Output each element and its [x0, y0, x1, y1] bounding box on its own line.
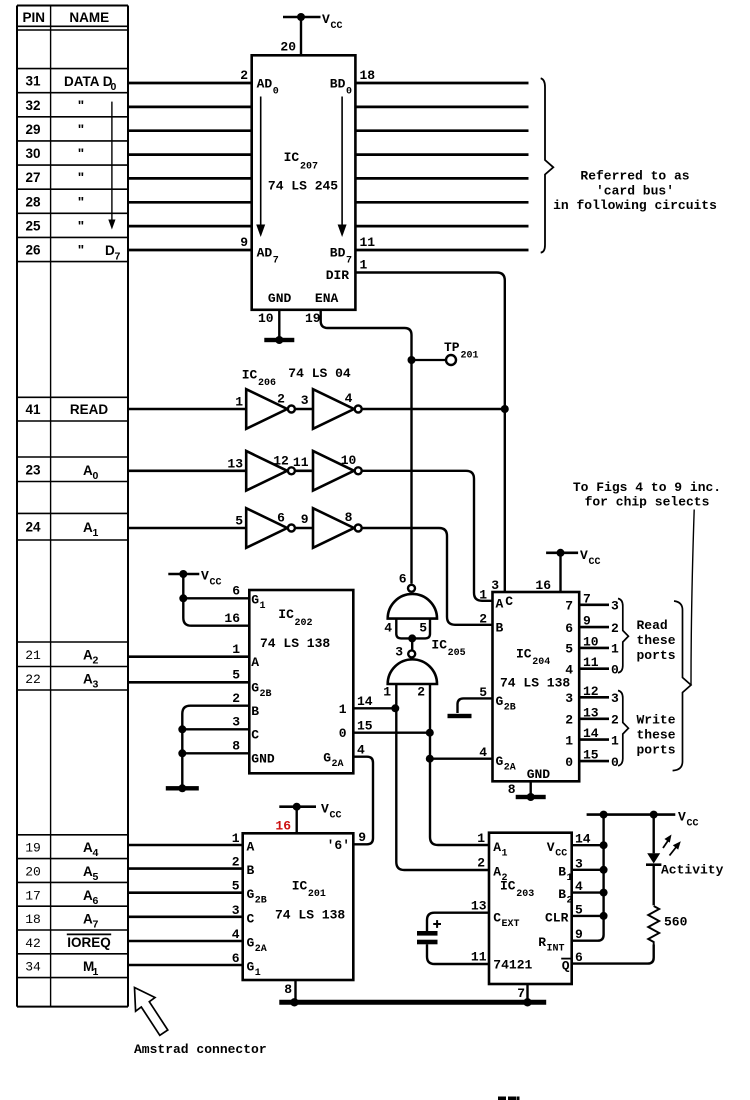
- IC U201 74LS138 body: [243, 833, 354, 980]
- svg-text:R: R: [538, 935, 546, 950]
- svg-text:13: 13: [471, 899, 487, 914]
- wire table to IC201 pin 3: [128, 915, 243, 918]
- pin row 22 A3: [17, 689, 128, 691]
- brace write ports: [618, 691, 628, 766]
- svg-text:10: 10: [341, 453, 357, 468]
- Amstrad connector arrow (outline): [135, 988, 168, 1036]
- wire card bus BD4 (IC207 to card bus): [355, 177, 528, 180]
- wire RD (inverted READ) to node RD: [362, 408, 504, 411]
- wire table to IC201 pin 4: [128, 940, 243, 943]
- svg-text:3: 3: [611, 691, 619, 706]
- svg-text:0: 0: [611, 755, 619, 770]
- junction dot: [179, 570, 187, 578]
- svg-text:74 LS 138: 74 LS 138: [275, 908, 345, 923]
- wire CEXT to capacitor: [427, 913, 489, 931]
- svg-text:these: these: [637, 728, 676, 743]
- svg-text:16: 16: [275, 819, 291, 834]
- pin row 21 A2: [17, 641, 128, 643]
- inverter IC206 A1 first stage (pin 5-6): [246, 508, 287, 548]
- svg-text:10: 10: [258, 311, 274, 326]
- svg-text:A: A: [83, 672, 93, 687]
- svg-text:74 LS 138: 74 LS 138: [260, 636, 330, 651]
- wire inverter stage1 to stage2: [296, 527, 313, 530]
- svg-text:Q: Q: [562, 959, 570, 974]
- svg-text:5: 5: [93, 871, 99, 883]
- NAND gate IC205b (pins 1,2 -> 3) dome: [388, 659, 437, 684]
- svg-text:15: 15: [583, 748, 599, 763]
- svg-text:A: A: [83, 888, 93, 903]
- svg-text:4: 4: [345, 391, 353, 406]
- svg-text:6: 6: [232, 951, 240, 966]
- svg-text:7: 7: [583, 591, 591, 606]
- svg-text:DATA D: DATA D: [64, 74, 113, 89]
- svg-text:560: 560: [664, 915, 688, 930]
- junction dot: [600, 912, 608, 920]
- ground symbol IC204: [516, 795, 546, 799]
- wire DIR to node RD: [355, 273, 504, 593]
- svg-text:74 LS 138: 74 LS 138: [500, 676, 570, 691]
- svg-text:G: G: [496, 694, 504, 709]
- IC U207 74LS245 body: [252, 55, 356, 309]
- wire table to IC201 pin 2: [128, 867, 243, 870]
- pointer line from chip selects note: [691, 510, 694, 686]
- IC204 output 5 (pin 10) wire: [579, 647, 609, 650]
- svg-text:TP: TP: [444, 340, 460, 355]
- junction dot: [600, 889, 608, 897]
- table row lines - address rows: [17, 834, 128, 836]
- wire A2 (table to IC202 pin A): [128, 655, 249, 658]
- card bus brace: [541, 78, 554, 252]
- svg-text:26: 26: [25, 243, 41, 258]
- svg-text:C: C: [493, 911, 501, 926]
- svg-text:30: 30: [25, 146, 40, 161]
- IC205a input legs bridged (pins 4,5): [396, 619, 430, 639]
- svg-text:CC: CC: [330, 811, 342, 822]
- svg-text:Referred to as: Referred to as: [580, 169, 689, 184]
- wire inverter stage1 to stage2: [296, 469, 313, 472]
- wire card bus BD0 (IC207 to card bus): [355, 82, 528, 85]
- svg-text:7: 7: [517, 986, 525, 1001]
- wire pin C to ground rail: [182, 728, 249, 730]
- wire G1 pin6: [183, 597, 249, 599]
- wire pin16 to Vcc: [296, 807, 298, 834]
- svg-text:11: 11: [583, 655, 599, 670]
- Vcc rail for IC204: [546, 551, 578, 554]
- svg-text:5: 5: [565, 642, 573, 657]
- IC U204 74LS138 body: [493, 592, 580, 781]
- node RD junction with READ line: [501, 405, 509, 413]
- svg-text:2: 2: [277, 392, 285, 407]
- wire capacitor to pin 11: [427, 944, 489, 964]
- svg-text:2: 2: [567, 896, 573, 907]
- junction dot: [600, 841, 608, 849]
- wire IC202 G2A to IC201 output 6 (pin 9): [353, 757, 373, 845]
- svg-text:5: 5: [235, 514, 243, 529]
- svg-text:27: 27: [25, 170, 40, 185]
- wire Qbar to resistor: [572, 945, 654, 964]
- svg-text:6: 6: [399, 572, 407, 587]
- svg-text:2: 2: [611, 621, 619, 636]
- svg-text:A: A: [493, 840, 501, 855]
- svg-text:A: A: [496, 597, 504, 612]
- svg-text:11: 11: [471, 950, 487, 965]
- wire IC205b pin1 to IC203 A2: [396, 684, 489, 870]
- pin row 41 READ: [17, 396, 128, 398]
- svg-text:": ": [78, 218, 84, 233]
- svg-text:3: 3: [395, 645, 403, 660]
- svg-text:1: 1: [477, 831, 485, 846]
- svg-text:IC: IC: [284, 150, 300, 165]
- svg-text:7: 7: [565, 599, 573, 614]
- svg-text:1: 1: [93, 966, 99, 978]
- junction dot G1: [179, 594, 187, 602]
- table row lines - data rows: [17, 68, 128, 70]
- svg-text:CC: CC: [331, 21, 343, 32]
- svg-text:A: A: [83, 840, 93, 855]
- pin row 23 A0: [17, 456, 128, 458]
- svg-text:READ: READ: [70, 402, 109, 417]
- IC204 output 4 (pin 11) wire: [579, 667, 609, 670]
- wire B2 to Vcc branch: [572, 891, 604, 893]
- svg-text:2B: 2B: [504, 703, 516, 714]
- svg-text:207: 207: [300, 162, 318, 173]
- wire data bus AD6 (table to IC207): [128, 225, 252, 228]
- svg-text:8: 8: [284, 982, 292, 997]
- wire table to IC201 pin 6: [128, 964, 243, 967]
- junction dot: [297, 13, 305, 21]
- svg-text:206: 206: [258, 378, 276, 389]
- svg-text:IC: IC: [292, 879, 308, 894]
- wire Vcc to G1 and pin16: [183, 574, 249, 626]
- svg-text:IOREQ: IOREQ: [67, 935, 111, 950]
- svg-text:A: A: [493, 865, 501, 880]
- IC204 output 0 (pin 15) wire: [579, 760, 609, 763]
- wire card bus BD6 (IC207 to card bus): [355, 225, 528, 228]
- svg-text:74121: 74121: [493, 958, 532, 973]
- svg-text:V: V: [547, 840, 555, 855]
- wire A1 (table to inverter): [128, 527, 246, 530]
- wire card bus BD2 (IC207 to card bus): [355, 129, 528, 132]
- wire data bus AD5 (table to IC207): [128, 201, 252, 204]
- wire G2B to ground: [458, 698, 493, 713]
- svg-text:V: V: [580, 548, 588, 563]
- svg-text:2: 2: [611, 713, 619, 728]
- svg-text:0: 0: [111, 81, 117, 93]
- junction dot (output 0 net to IC204 G2A): [426, 755, 434, 763]
- IC204 output 3 (pin 12) wire: [579, 696, 609, 699]
- wire Vcc pin14 to Vcc rail branch: [572, 844, 604, 846]
- svg-text:D: D: [105, 243, 115, 258]
- svg-text:2: 2: [417, 685, 425, 700]
- wire A1 buffered to IC204 pin B: [362, 528, 492, 625]
- svg-text:5: 5: [232, 879, 240, 894]
- svg-text:2: 2: [502, 873, 508, 884]
- svg-text:74 LS 245: 74 LS 245: [268, 179, 338, 194]
- svg-text:CC: CC: [589, 557, 601, 568]
- svg-text:9: 9: [358, 830, 366, 845]
- svg-text:2: 2: [232, 855, 240, 870]
- svg-text:NAME: NAME: [69, 10, 109, 25]
- svg-text:": ": [78, 194, 84, 209]
- svg-text:3: 3: [301, 393, 309, 408]
- resistor R 560 zigzag: [648, 906, 659, 945]
- svg-text:13: 13: [227, 456, 243, 471]
- svg-text:for chip selects: for chip selects: [585, 495, 710, 510]
- svg-text:17: 17: [25, 888, 41, 903]
- svg-text:25: 25: [25, 218, 41, 233]
- junction dot (IC203 branch): [600, 811, 608, 819]
- svg-text:A: A: [83, 912, 93, 927]
- svg-text:0: 0: [346, 87, 352, 98]
- svg-text:A: A: [83, 463, 93, 478]
- svg-text:To Figs 4 to 9 inc.: To Figs 4 to 9 inc.: [573, 480, 721, 495]
- wire data bus AD1 (table to IC207): [128, 106, 252, 109]
- svg-text:2B: 2B: [255, 896, 267, 907]
- wire inverter stage1 to stage2: [296, 408, 313, 411]
- svg-text:8: 8: [508, 782, 516, 797]
- svg-text:": ": [78, 122, 84, 137]
- svg-text:B: B: [247, 863, 255, 878]
- svg-text:19: 19: [25, 841, 41, 856]
- svg-text:G: G: [251, 593, 259, 608]
- svg-text:V: V: [321, 802, 329, 817]
- svg-text:IC: IC: [278, 607, 294, 622]
- svg-text:1: 1: [502, 849, 508, 860]
- svg-text:CC: CC: [687, 819, 699, 830]
- svg-text:0: 0: [273, 87, 279, 98]
- svg-text:0: 0: [565, 755, 573, 770]
- svg-text:4: 4: [232, 927, 240, 942]
- svg-text:3: 3: [491, 578, 499, 593]
- inverter IC206 READ second stage (pin 3-4): [313, 389, 354, 429]
- svg-text:1: 1: [260, 601, 266, 612]
- svg-text:ENA: ENA: [315, 291, 339, 306]
- svg-text:V: V: [322, 12, 330, 27]
- capacitor + polarity mark: [433, 923, 441, 925]
- svg-text:Read: Read: [637, 618, 668, 633]
- svg-text:GND: GND: [268, 291, 292, 306]
- svg-text:ports: ports: [637, 648, 676, 663]
- svg-text:1: 1: [567, 873, 573, 884]
- svg-text:31: 31: [25, 74, 41, 89]
- svg-text:DIR: DIR: [326, 268, 350, 283]
- wire pin20 to Vcc: [300, 17, 302, 55]
- wire RINT to Vcc branch: [572, 815, 604, 941]
- wire table to IC201 pin 1: [128, 844, 243, 847]
- wire IC202 output 0 to gate IC205b pin2 / IC204 G2A / IC203 A1: [353, 732, 430, 734]
- svg-text:32: 32: [25, 98, 40, 113]
- svg-text:1: 1: [232, 642, 240, 657]
- IC205b output bubble (pin 3): [408, 650, 415, 657]
- svg-text:9: 9: [240, 235, 248, 250]
- svg-text:2: 2: [565, 713, 573, 728]
- svg-text:0: 0: [611, 663, 619, 678]
- wire card bus BD3 (IC207 to card bus): [355, 153, 528, 156]
- svg-text:these: these: [637, 633, 676, 648]
- inverter IC206 A0 second stage (pin 11-10): [313, 451, 354, 491]
- svg-text:20: 20: [25, 865, 41, 880]
- svg-text:CLR: CLR: [545, 910, 569, 925]
- svg-text:2: 2: [240, 68, 248, 83]
- IC U203 74121 body: [489, 833, 572, 984]
- IC204 output 7 (pin 7) wire: [579, 603, 609, 606]
- svg-text:4: 4: [357, 743, 365, 758]
- svg-text:9: 9: [301, 512, 309, 527]
- wire pin7 to ground bus: [526, 984, 528, 1002]
- svg-text:C: C: [505, 594, 513, 609]
- svg-text:G: G: [247, 887, 255, 902]
- wire data bus AD7 (table to IC207): [128, 249, 252, 252]
- wire A0 (table to inverter): [128, 469, 246, 472]
- wire B1 to Vcc branch: [572, 869, 604, 871]
- svg-text:2: 2: [477, 856, 485, 871]
- svg-text:2A: 2A: [504, 763, 516, 774]
- test point TP201 terminal: [446, 355, 456, 365]
- svg-text:C: C: [251, 728, 259, 743]
- ground bus (thick): [279, 1000, 546, 1005]
- svg-text:A: A: [247, 840, 255, 855]
- svg-text:4: 4: [93, 847, 99, 859]
- svg-text:AD: AD: [257, 77, 273, 92]
- wire pin B to ground rail: [182, 706, 249, 786]
- svg-text:": ": [78, 170, 84, 185]
- svg-text:PIN: PIN: [23, 10, 46, 25]
- wire to TP201: [412, 359, 447, 361]
- wire data bus AD0 (table to IC207): [128, 82, 252, 85]
- svg-text:1: 1: [93, 527, 99, 539]
- svg-text:2B: 2B: [260, 689, 272, 700]
- svg-text:2A: 2A: [332, 759, 344, 770]
- junction dot pin8: [290, 998, 298, 1006]
- wire READ (table to inverter): [128, 408, 246, 411]
- junction dot: [557, 549, 565, 557]
- junction dot: [293, 803, 301, 811]
- svg-text:B: B: [558, 887, 566, 902]
- svg-text:IC: IC: [516, 647, 532, 662]
- svg-text:A: A: [83, 520, 93, 535]
- wire IC201 pin8 to ground bus: [294, 980, 296, 1002]
- svg-text:4: 4: [479, 745, 487, 760]
- wire CLR to Vcc branch: [572, 915, 604, 917]
- IC204 output 1 (pin 14) wire: [579, 738, 609, 741]
- junction dot C: [178, 725, 186, 733]
- wire pin16 to Vcc: [559, 553, 561, 592]
- svg-text:23: 23: [25, 462, 41, 477]
- IC204 output 2 (pin 13) wire: [579, 717, 609, 720]
- svg-text:A: A: [83, 648, 93, 663]
- svg-text:3: 3: [565, 691, 573, 706]
- wire ENA to gate IC205a output: [321, 310, 412, 584]
- svg-text:202: 202: [295, 618, 313, 629]
- junction dot (gate output to gate inputs): [408, 634, 416, 642]
- svg-text:10: 10: [583, 634, 599, 649]
- junction dot: [391, 704, 399, 712]
- Vcc rail (right): [587, 813, 676, 816]
- svg-text:": ": [78, 146, 84, 161]
- svg-text:9: 9: [583, 614, 591, 629]
- pin row 24 A1: [17, 512, 128, 514]
- svg-text:205: 205: [448, 648, 466, 659]
- svg-text:5: 5: [232, 668, 240, 683]
- Vcc rail for IC207: [283, 16, 321, 19]
- svg-text:16: 16: [224, 611, 240, 626]
- wire pin GND to ground rail: [182, 752, 249, 754]
- wire IC202 output 1 to gate IC205b pin1 / IC203 A2: [353, 707, 395, 709]
- svg-text:6: 6: [277, 511, 285, 526]
- IC204 output 6 (pin 9) wire: [579, 626, 609, 629]
- svg-text:34: 34: [25, 960, 41, 975]
- LED D (Activity) triangle: [647, 853, 660, 863]
- svg-text:1: 1: [232, 831, 240, 846]
- IC207 direction arrow AD side: [260, 97, 262, 227]
- svg-text:20: 20: [280, 40, 296, 55]
- svg-text:3: 3: [232, 903, 240, 918]
- svg-text:V: V: [201, 569, 209, 584]
- svg-text:C: C: [247, 911, 255, 926]
- inverter IC206 READ first stage (pin 1-2): [246, 389, 287, 429]
- inverter IC206 A0 first stage (pin 13-12): [246, 451, 287, 491]
- svg-text:2A: 2A: [255, 944, 267, 955]
- connector table frame: [16, 6, 18, 1007]
- svg-text:Activity: Activity: [661, 863, 724, 878]
- svg-text:G: G: [247, 936, 255, 951]
- svg-text:21: 21: [25, 648, 41, 663]
- svg-text:2: 2: [93, 655, 99, 667]
- svg-text:14: 14: [357, 694, 373, 709]
- svg-text:BD: BD: [330, 77, 346, 92]
- wire card bus BD7 (IC207 to card bus): [355, 249, 528, 252]
- test point TP201 junction dot: [408, 356, 416, 364]
- svg-text:G: G: [323, 751, 331, 766]
- svg-text:INT: INT: [547, 943, 565, 954]
- junction dot: [600, 866, 608, 874]
- svg-text:11: 11: [293, 455, 309, 470]
- svg-text:in following circuits: in following circuits: [553, 198, 717, 213]
- ground symbol IC202: [166, 786, 199, 790]
- IC207 direction arrow BD side: [341, 97, 343, 227]
- big brace chip selects: [673, 601, 691, 771]
- junction dot pin7: [523, 998, 531, 1006]
- svg-text:6: 6: [93, 895, 99, 907]
- wire LED cathode to resistor: [653, 865, 655, 906]
- svg-text:3: 3: [93, 679, 99, 691]
- wire to IC204 G2A: [430, 758, 493, 760]
- svg-text:74 LS 04: 74 LS 04: [288, 366, 351, 381]
- wire A0 buffered to IC204 pin A: [362, 471, 492, 601]
- svg-text:203: 203: [516, 889, 534, 900]
- svg-text:2: 2: [232, 691, 240, 706]
- ground bar IC204 G2B: [448, 714, 472, 718]
- svg-text:29: 29: [25, 122, 40, 137]
- capacitor C (electrolytic) plates: [417, 931, 438, 936]
- svg-text:A: A: [83, 864, 93, 879]
- wire pin8 to ground: [530, 781, 532, 795]
- svg-text:8: 8: [345, 510, 353, 525]
- svg-text:BD: BD: [330, 246, 346, 261]
- svg-text:0: 0: [339, 726, 347, 741]
- svg-text:B: B: [558, 864, 566, 879]
- svg-text:IC: IC: [431, 638, 447, 653]
- svg-text:4: 4: [565, 663, 573, 678]
- svg-text:22: 22: [25, 672, 41, 687]
- svg-text:1: 1: [383, 685, 391, 700]
- wire card bus BD5 (IC207 to card bus): [355, 201, 528, 204]
- svg-text:ports: ports: [637, 743, 676, 758]
- wire IC205b output to IC205a inputs: [411, 638, 413, 649]
- IC205a output bubble (pin 6): [408, 585, 415, 592]
- svg-text:IC: IC: [242, 368, 258, 383]
- svg-text:Write: Write: [637, 713, 676, 728]
